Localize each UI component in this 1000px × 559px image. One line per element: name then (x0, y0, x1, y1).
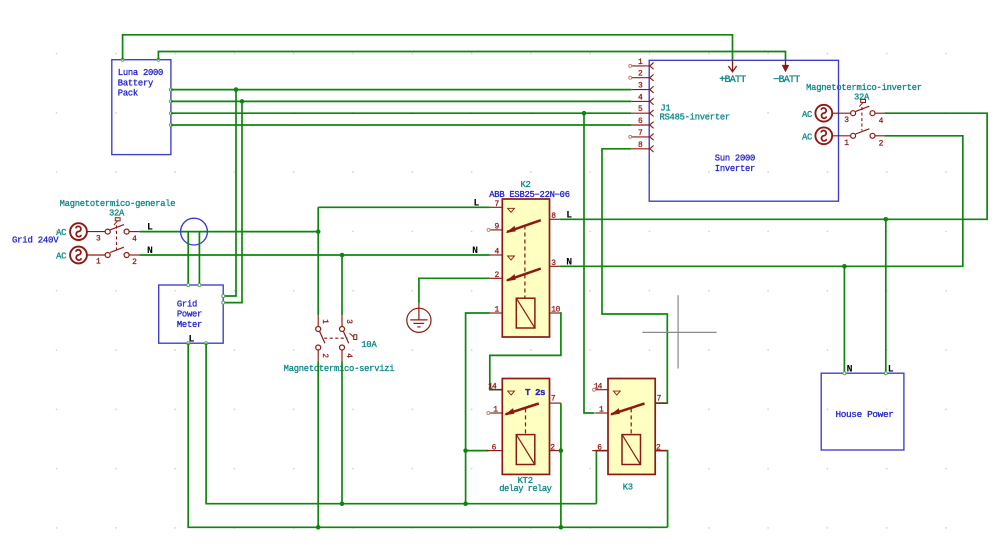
svg-text:1: 1 (96, 258, 101, 267)
svg-text:7: 7 (495, 200, 500, 209)
junction (559, 448, 564, 453)
wire L drop to servizi breaker (317, 207, 319, 315)
junction (240, 99, 245, 104)
svg-text:+BATT: +BATT (719, 75, 746, 86)
svg-text:4: 4 (132, 235, 137, 244)
wire to K3 pin 1 (584, 113, 595, 413)
breaker Magnetotermico-servizi 10A (284, 315, 395, 374)
svg-text:Sun 2000: Sun 2000 (715, 154, 755, 164)
svg-text:K2: K2 (520, 180, 530, 190)
svg-text:10A: 10A (361, 340, 377, 350)
wire K2 pin 2 to earth (419, 278, 490, 303)
wire J1 pin 8 to K3 pin 7 (602, 149, 667, 403)
wire battery pin to J1 pin 4 (171, 100, 631, 102)
svg-text:RS485-inverter: RS485-inverter (660, 113, 730, 123)
svg-text:2: 2 (550, 444, 555, 453)
svg-text:2: 2 (495, 271, 500, 280)
ac source inverter N (815, 127, 832, 144)
wire K2 pin 7 branch (318, 206, 490, 208)
svg-text:3: 3 (344, 319, 353, 324)
current transformer circle (181, 218, 208, 245)
svg-text:L: L (888, 363, 894, 374)
relay K3 (592, 379, 666, 475)
wire to Grid Power Meter input 2 (223, 101, 242, 302)
breaker Magnetotermico-generale 32A (60, 199, 176, 267)
svg-text:3: 3 (551, 259, 556, 268)
K2 coil (516, 298, 535, 328)
house power box (821, 372, 904, 450)
junction (463, 501, 468, 506)
svg-text:L: L (566, 209, 572, 220)
junction (234, 87, 239, 92)
wire battery pin to J1 pin 5 (171, 112, 631, 114)
svg-text:Inverter: Inverter (715, 164, 755, 174)
wire grid L (139, 231, 318, 233)
svg-text:8: 8 (638, 141, 643, 150)
junction (316, 525, 321, 530)
junction (559, 525, 564, 530)
svg-text:AC: AC (802, 110, 812, 120)
junction (316, 229, 321, 234)
hierarchical pin -BATT (773, 60, 800, 86)
svg-text:1: 1 (493, 406, 498, 415)
svg-text:N: N (566, 256, 572, 267)
wire inverter N to K2 pin 3 (560, 136, 963, 266)
svg-text:N: N (847, 363, 853, 374)
wire up to K3 pin 6 (596, 451, 608, 504)
wire house N drop (843, 266, 845, 373)
K2 contact blade 2-3 (507, 269, 541, 281)
svg-text:9: 9 (495, 223, 500, 232)
breaker Magnetotermico-inverter 32A (802, 83, 922, 148)
svg-text:1: 1 (638, 58, 643, 67)
svg-text:House Power: House Power (835, 409, 893, 420)
wire to KT2 pin 6 (466, 450, 489, 452)
wire battery pin to J1 pin 3 (171, 89, 631, 91)
junction (582, 111, 587, 116)
junction (842, 264, 847, 269)
wire battery minus to -BATT (158, 52, 785, 61)
graphic cross lines (642, 295, 716, 368)
wire K2 pin 10 to KT2 pin 14 (490, 313, 561, 390)
wire K2 pin 1 down (466, 313, 490, 504)
wire grid N to K2 pin 4 (139, 254, 489, 256)
source Grid 240V (12, 223, 87, 263)
svg-text:Grid: Grid (177, 299, 197, 309)
wire inverter L to K2 pin 8 (560, 113, 987, 219)
wire battery pin to J1 pin 6 (171, 124, 631, 126)
relay K2 ABB ESB25-22N-06 (472, 180, 572, 337)
wire KT2 pin 7 down (560, 403, 562, 527)
ac source grid N (70, 247, 87, 264)
junction (884, 217, 889, 222)
svg-text:2: 2 (879, 139, 884, 148)
earth ground symbol (407, 303, 431, 332)
svg-text:5: 5 (638, 105, 643, 114)
svg-text:N: N (472, 245, 478, 256)
svg-text:AC: AC (802, 132, 812, 142)
ac source grid L (70, 223, 87, 240)
breaker poles inverter (833, 99, 885, 148)
svg-text:Luna 2000: Luna 2000 (118, 68, 163, 78)
svg-text:2: 2 (656, 444, 661, 453)
svg-text:Grid 240V: Grid 240V (12, 235, 59, 245)
svg-text:3: 3 (844, 116, 849, 125)
svg-text:4: 4 (495, 248, 500, 257)
svg-text:2: 2 (320, 353, 329, 358)
svg-text:6: 6 (597, 444, 602, 453)
svg-text:7: 7 (657, 395, 662, 404)
K2 mechanical link (524, 226, 526, 298)
svg-text:8: 8 (551, 212, 556, 221)
wire meter N bottom run (206, 343, 596, 504)
svg-text:7: 7 (551, 395, 556, 404)
svg-text:K3: K3 (623, 483, 633, 493)
K2 contact blade 9-8 (507, 220, 541, 232)
wire meter L bottom run (188, 343, 667, 527)
svg-text:1: 1 (320, 319, 329, 324)
svg-text:32A: 32A (109, 208, 125, 218)
relay KT2 delay relay (487, 379, 561, 475)
svg-text:Meter: Meter (177, 320, 202, 330)
junction (340, 501, 345, 506)
battery Luna 2000 Battery Pack (112, 58, 173, 154)
svg-text:1: 1 (599, 406, 604, 415)
svg-text:1: 1 (495, 306, 500, 315)
connector J1 RS485-inverter (629, 58, 730, 152)
svg-text:4: 4 (879, 117, 884, 126)
inverter Sun 2000 (649, 60, 838, 201)
svg-text:−BATT: −BATT (773, 75, 800, 86)
wire servizi pole 2 down (317, 361, 319, 527)
svg-text:Magnetotermico-servizi: Magnetotermico-servizi (284, 364, 395, 374)
svg-text:14: 14 (488, 382, 497, 391)
svg-text:4: 4 (344, 353, 353, 358)
svg-text:32A: 32A (854, 92, 870, 102)
wire servizi pole 4 down (341, 361, 343, 504)
svg-text:10: 10 (551, 306, 560, 315)
wire CT sense 1 (187, 232, 189, 285)
svg-text:L: L (474, 197, 480, 208)
svg-text:Power: Power (177, 310, 202, 320)
svg-text:T 2s: T 2s (525, 387, 545, 398)
svg-text:1: 1 (844, 139, 849, 148)
wire to Grid Power Meter input 1 (223, 90, 236, 296)
svg-text:Battery: Battery (118, 78, 153, 88)
svg-text:AC: AC (56, 252, 66, 262)
wire house L drop (885, 219, 887, 373)
wire CT sense 2 (198, 232, 200, 285)
junction (463, 448, 468, 453)
svg-text:2: 2 (638, 70, 643, 79)
svg-text:Pack: Pack (118, 89, 138, 99)
svg-text:6: 6 (492, 444, 497, 453)
svg-text:delay relay: delay relay (499, 484, 551, 494)
svg-text:3: 3 (96, 235, 101, 244)
svg-text:4: 4 (638, 93, 643, 102)
meter Grid Power Meter (159, 284, 225, 345)
svg-text:3: 3 (638, 82, 643, 91)
svg-text:2: 2 (132, 258, 137, 267)
ac source inverter L (815, 105, 832, 122)
svg-text:7: 7 (638, 129, 643, 138)
wire battery plus to +BATT (123, 35, 733, 61)
wire N drop to servizi breaker (341, 255, 343, 315)
svg-text:6: 6 (638, 117, 643, 126)
svg-text:AC: AC (56, 228, 66, 238)
junction (340, 253, 345, 258)
hierarchical pin +BATT (719, 60, 746, 86)
wire up to K3 pin 2 (656, 451, 668, 528)
